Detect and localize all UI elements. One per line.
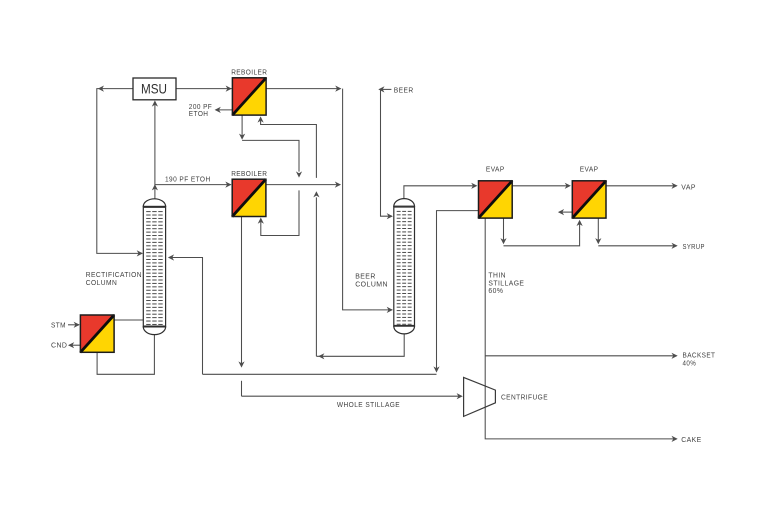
svg-text:REBOILER: REBOILER [231,171,267,178]
wire rectification column overhead to MSU [154,104,156,199]
wire evaporator E2 condensate stub [559,211,572,213]
evaporator E2 exchanger [572,181,606,218]
svg-text:CAKE: CAKE [681,437,701,444]
svg-text:WHOLE STILLAGE: WHOLE STILLAGE [337,402,400,409]
condenser exchanger STM/CND [80,315,114,352]
svg-text:40%: 40% [683,361,697,368]
wire evaporator E2 vapor to VAP outlet [606,185,677,187]
wire evaporator E1 condensate return to rectification column [169,258,202,375]
wire 200 PF ETOH product out of reboiler R1 [216,109,232,111]
wire reboiler R1 drain to reboiler R2 heat inlet [241,115,243,136]
wire whole stillage to centrifuge [242,395,462,397]
svg-text:COLUMN: COLUMN [86,280,117,287]
svg-text:BACKSET: BACKSET [683,352,716,359]
svg-text:EVAP: EVAP [486,167,505,174]
rectification column vessel [143,199,165,207]
wire reboiler R2 drain to whole stillage line [241,217,243,364]
wire 190 PF ETOH branch to reboiler R2 [155,184,231,186]
wire reboiler R1 outlet to beer-column feed header [266,88,341,90]
wire MSU recycle to rectification column left [97,89,142,254]
svg-text:190 PF ETOH: 190 PF ETOH [165,176,211,183]
wire CND outlet [69,344,80,346]
wire beer column bottoms outlet [316,333,404,356]
svg-text:CND: CND [51,343,67,350]
svg-text:CENTRIFUGE: CENTRIFUGE [501,394,548,401]
svg-text:RECTIFICATION: RECTIFICATION [86,272,142,279]
wire evaporator E1 vapor to evaporator E2 [512,185,569,187]
wire evaporator E1 concentrate to evaporator E2 [503,218,505,241]
wire MSU to reboiler R1 inlet [176,88,232,90]
svg-text:200 PF: 200 PF [189,104,212,111]
evaporator E1 exchanger [479,181,513,218]
wire beer-column feed header vertical and entry [343,89,393,310]
svg-text:SYRUP: SYRUP [683,244,705,251]
wire exchanger to column base [114,319,143,321]
wire condenser loop column bottom to exchanger [97,333,154,374]
svg-text:60%: 60% [488,288,503,295]
reboiler R1 exchanger [232,78,266,115]
svg-text:COLUMN: COLUMN [355,281,388,288]
beer column vessel [394,199,415,207]
centrifuge [464,377,496,416]
wire STM inlet [68,324,79,326]
svg-text:MSU: MSU [141,81,167,96]
wire BEER feed line [381,88,392,90]
svg-text:REBOILER: REBOILER [231,70,267,77]
svg-text:THIN: THIN [488,273,506,280]
svg-text:ETOH: ETOH [189,111,209,118]
MSU unit box [133,78,176,100]
svg-text:STM: STM [51,322,66,329]
wire evaporator E1 liquor out to return header [437,211,479,370]
wire beer column bottoms riser to reboiler R1 heat inlet [315,197,317,356]
wire evaporator E2 concentrate to SYRUP outlet [597,218,599,241]
wire thin stillage main down-line and CAKE outlet [485,218,676,439]
svg-text:BEER: BEER [355,274,376,281]
svg-text:BEER: BEER [394,87,414,94]
reboiler R2 exchanger [232,179,266,216]
wire reboiler R2 outlet to feed header [266,184,340,186]
wire BACKSET branch [485,355,676,357]
svg-text:EVAP: EVAP [580,167,599,174]
wire beer column overhead vapor to evaporator E1 [404,186,476,199]
svg-text:VAP: VAP [681,184,696,191]
svg-text:STILLAGE: STILLAGE [488,280,524,287]
